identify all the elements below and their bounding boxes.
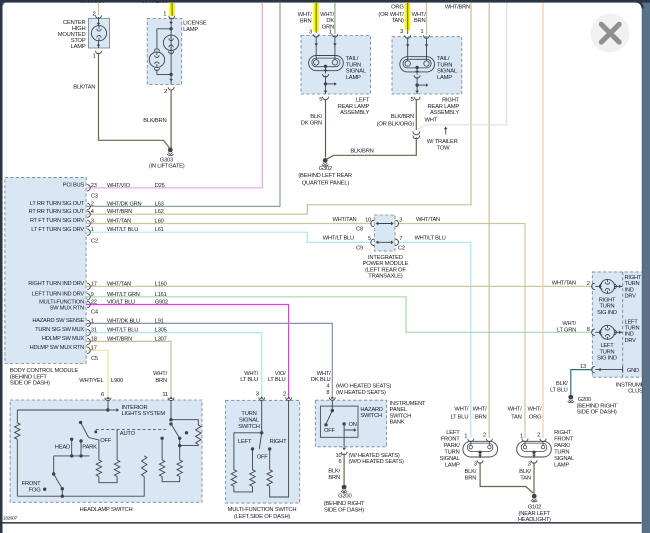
svg-text:BLK/BRN: BLK/BRN	[391, 114, 414, 120]
right front lamp common dot and pin 3	[532, 451, 535, 454]
svg-text:LT BLU: LT BLU	[450, 414, 468, 420]
svg-text:W/ TRAILER: W/ TRAILER	[427, 139, 458, 145]
svg-text:WHT/: WHT/	[562, 321, 576, 327]
MFS internal wires	[261, 400, 263, 433]
svg-text:(BEHIND RIGHT: (BEHIND RIGHT	[577, 403, 618, 409]
wire WHT/BRN to left front lamp pin 2	[488, 3, 490, 438]
svg-text:L61: L61	[155, 227, 164, 233]
wire BLK/BRN left front lamp to G102	[480, 462, 533, 493]
svg-text:ON: ON	[349, 422, 357, 428]
svg-text:1: 1	[91, 318, 94, 324]
svg-text:ASSEMBLY: ASSEMBLY	[340, 110, 369, 116]
wire WHT/DK GRN stub into left tail pin 1	[334, 3, 336, 34]
wire WHT/TAN from IPM pin 3 to right front lamp	[397, 224, 525, 439]
svg-text:WHT/VIO: WHT/VIO	[107, 183, 131, 189]
svg-text:(W/ HEATED SEATS): (W/ HEATED SEATS)	[349, 453, 400, 459]
bulb right turn signal indicator	[601, 279, 615, 293]
wire WHT/TAN stub into CHMSL	[98, 3, 100, 15]
svg-text:4: 4	[326, 384, 329, 390]
BCM pin 1 WHT/LT BLU L61	[87, 229, 90, 235]
center high mounted stop lamp exit wire	[98, 41, 100, 48]
wire BLK/TAN right front lamp to G102	[533, 462, 535, 493]
svg-text:L305: L305	[155, 328, 167, 334]
svg-text:RIGHT: RIGHT	[599, 297, 616, 303]
svg-text:HAZARD: HAZARD	[360, 407, 383, 413]
svg-text:L63: L63	[155, 201, 164, 207]
svg-text:POWER MODULE: POWER MODULE	[363, 261, 409, 267]
svg-text:(BEHIND LEFT: (BEHIND LEFT	[10, 374, 48, 380]
IPM internal row 2 arrow	[377, 241, 393, 243]
svg-text:(BEHIND LEFT REAR: (BEHIND LEFT REAR	[298, 173, 352, 179]
svg-text:SIGNAL: SIGNAL	[346, 69, 367, 75]
svg-text:TURN SIG SW MUX: TURN SIG SW MUX	[35, 327, 84, 333]
ground G302	[323, 158, 328, 163]
bulb license lamp right	[163, 35, 178, 50]
svg-text:WHT/: WHT/	[320, 12, 335, 18]
cluster gnd row	[595, 369, 623, 371]
wire WHT/VIO D25 pci bus	[86, 3, 262, 188]
left rear lamp assembly box	[301, 36, 371, 95]
svg-text:7: 7	[399, 236, 402, 242]
svg-text:REAR LAMP: REAR LAMP	[427, 104, 459, 110]
wire yellow highlight into right tail lamp pin 3	[405, 3, 411, 30]
svg-text:(W/O HEATED SEATS): (W/O HEATED SEATS)	[336, 384, 392, 390]
svg-text:LAMP: LAMP	[346, 75, 361, 81]
front fog switch	[53, 456, 55, 474]
svg-text:INSTRUMENT: INSTRUMENT	[390, 401, 426, 407]
svg-text:PARK/: PARK/	[444, 443, 460, 449]
svg-text:PCI BUS: PCI BUS	[63, 182, 85, 188]
svg-text:WHT/LT BLU: WHT/LT BLU	[107, 227, 138, 233]
svg-text:L161: L161	[155, 292, 167, 298]
resistor headlamp C	[142, 456, 147, 477]
svg-text:LT BLU: LT BLU	[550, 387, 568, 393]
resistor headlamp D	[177, 460, 182, 477]
svg-text:DK: DK	[326, 18, 334, 24]
svg-text:HDLMP SW MUX RTN: HDLMP SW MUX RTN	[30, 345, 85, 351]
resistor headlamp E	[159, 460, 164, 477]
svg-text:TURN: TURN	[625, 326, 640, 332]
svg-text:SIGNAL: SIGNAL	[440, 456, 461, 462]
ground G200 behind right side of dash (cluster)	[568, 395, 573, 400]
svg-text:AUTO: AUTO	[120, 431, 136, 437]
top right corner curve	[636, 1, 643, 8]
wire BLK/BRN right tail lower segment to G302	[327, 137, 417, 159]
svg-text:1: 1	[420, 29, 423, 35]
svg-text:WHT/TAN: WHT/TAN	[333, 217, 357, 223]
svg-text:2: 2	[483, 433, 486, 439]
svg-text:22: 22	[91, 300, 97, 306]
svg-text:IND: IND	[625, 287, 634, 293]
svg-text:LT BLU: LT BLU	[240, 377, 258, 383]
svg-text:WHT/TAN: WHT/TAN	[107, 219, 131, 225]
svg-text:FRONT: FRONT	[441, 437, 461, 443]
svg-text:TURN: TURN	[600, 304, 615, 310]
bottom rule line	[3, 522, 642, 524]
svg-text:TURN: TURN	[600, 349, 615, 355]
svg-text:11: 11	[162, 392, 168, 398]
BCM pin 18 WHT/BRN L307	[87, 338, 90, 344]
resistor MFS middle	[250, 470, 255, 487]
headlamp switch arm 2	[169, 422, 172, 425]
svg-text:C9: C9	[356, 245, 363, 251]
svg-text:WHT/LT GRN: WHT/LT GRN	[107, 292, 140, 298]
svg-text:C3: C3	[91, 193, 98, 199]
svg-text:TAN: TAN	[511, 414, 522, 420]
svg-text:C4: C4	[91, 309, 98, 315]
svg-text:(LEFT REAR OF: (LEFT REAR OF	[365, 267, 406, 273]
svg-text:RIGHT: RIGHT	[625, 275, 642, 281]
svg-text:WHT/: WHT/	[317, 371, 332, 377]
headlamp switch box	[10, 400, 202, 502]
wire WHT/DK GRN L63 lt rr turn sig out	[86, 3, 280, 206]
wire WHT/BRN L62 rt rr turn sig out	[86, 3, 471, 214]
svg-text:182607: 182607	[3, 516, 18, 521]
junction dot license top	[169, 27, 172, 30]
svg-text:WHT/TAN: WHT/TAN	[552, 281, 576, 287]
pin 5 left tail lamp	[324, 91, 328, 94]
IPM pin 5 C9	[371, 239, 374, 245]
in-line connector trailer tow	[413, 131, 420, 134]
svg-text:SIG IND: SIG IND	[597, 356, 617, 362]
svg-text:(BEHIND RIGHT: (BEHIND RIGHT	[324, 501, 365, 507]
ground G102	[532, 494, 537, 499]
trailer tow arrow	[445, 129, 447, 135]
right rear lamp assembly box	[392, 37, 462, 94]
svg-text:9: 9	[91, 292, 94, 298]
svg-text:OFF: OFF	[257, 454, 269, 460]
svg-text:10: 10	[336, 453, 342, 459]
svg-text:WHT/LT BLU: WHT/LT BLU	[323, 235, 354, 241]
svg-text:WHT/: WHT/	[153, 371, 168, 377]
svg-text:C2: C2	[91, 239, 98, 245]
svg-text:SWITCH: SWITCH	[238, 424, 260, 430]
svg-text:8: 8	[326, 390, 329, 396]
svg-text:PARK/: PARK/	[554, 443, 570, 449]
left edge of dialog	[0, 0, 3, 533]
svg-text:SIGNAL: SIGNAL	[554, 456, 575, 462]
IPM pin 10 C8	[371, 220, 374, 226]
svg-text:DK BLU: DK BLU	[311, 377, 331, 383]
BCM pin 17 WHT/TAN L160	[87, 283, 90, 289]
svg-text:DK GRN: DK GRN	[301, 120, 322, 126]
ground G303	[168, 148, 173, 153]
center high mounted stop lamp box	[89, 18, 110, 48]
resistor MFS left	[231, 470, 236, 487]
wire WHT/DK BLU L91 hazard sw sense	[86, 323, 332, 396]
svg-text:TURN: TURN	[554, 450, 569, 456]
svg-text:WHT/DK BLU: WHT/DK BLU	[107, 318, 140, 324]
svg-text:(NEAR LEFT: (NEAR LEFT	[518, 511, 550, 517]
svg-text:L160: L160	[155, 281, 167, 287]
svg-text:SIGNAL: SIGNAL	[437, 69, 458, 75]
wire WHT/BRN L307 hdlmp sw mux	[86, 341, 171, 397]
svg-text:SWITCH: SWITCH	[390, 413, 412, 419]
svg-text:1: 1	[163, 11, 166, 17]
wire WHT trailer tow	[416, 3, 506, 130]
svg-text:G902: G902	[155, 300, 168, 306]
svg-text:VIO/LT BLU: VIO/LT BLU	[107, 300, 135, 306]
svg-text:TURN: TURN	[444, 450, 459, 456]
svg-text:2: 2	[537, 433, 540, 439]
left tail bulb common dot	[324, 65, 327, 68]
svg-text:FRONT: FRONT	[22, 481, 42, 487]
right tail junction with branch arrow	[416, 77, 418, 94]
instrument cluster internal divider	[622, 272, 624, 377]
svg-text:RIGHT: RIGHT	[442, 98, 460, 104]
svg-text:SIDE OF DASH): SIDE OF DASH)	[10, 381, 50, 387]
svg-text:VIO/: VIO/	[275, 371, 286, 377]
svg-text:LICENSE: LICENSE	[183, 20, 207, 26]
svg-text:TRANSAXLE): TRANSAXLE)	[368, 274, 402, 280]
multi-function switch box	[226, 400, 300, 503]
svg-text:D25: D25	[155, 183, 165, 189]
svg-text:(OR WHT/: (OR WHT/	[378, 12, 404, 18]
BCM pin 2 WHT/DK GRN L63	[87, 203, 90, 209]
svg-text:WHT/LT BLU: WHT/LT BLU	[107, 328, 138, 334]
svg-text:GND: GND	[627, 368, 639, 374]
svg-text:QUARTER PANEL): QUARTER PANEL)	[302, 180, 350, 186]
wire WHT/BRN stub into right tail pin 1	[426, 3, 428, 35]
svg-text:INTERIOR: INTERIOR	[122, 405, 148, 411]
MFS resistor bottoms	[234, 486, 253, 492]
svg-text:WHT/TAN: WHT/TAN	[416, 217, 440, 223]
wire WHT/LT BLU L61 lt ft turn sig drv to IPM	[86, 232, 372, 242]
svg-text:BLK/BRN: BLK/BRN	[350, 149, 373, 155]
svg-text:LEFT TURN IND DRV: LEFT TURN IND DRV	[32, 291, 85, 297]
svg-text:OFF: OFF	[324, 428, 335, 434]
svg-text:HEAD: HEAD	[55, 445, 70, 451]
headlamp auto contact dot	[185, 431, 188, 434]
svg-text:L91: L91	[155, 318, 164, 324]
IPM pin 7 C2	[395, 239, 398, 245]
svg-text:C5: C5	[91, 356, 98, 362]
svg-text:PARK: PARK	[82, 445, 97, 451]
left tail dual filament bulb	[309, 56, 344, 71]
svg-text:C8: C8	[356, 227, 363, 233]
svg-text:G102: G102	[528, 504, 541, 510]
svg-text:MULTI-FUNCTION SWITCH: MULTI-FUNCTION SWITCH	[228, 507, 297, 513]
svg-text:10: 10	[365, 217, 371, 223]
svg-text:LIGHTS SYSTEM: LIGHTS SYSTEM	[122, 411, 166, 417]
svg-text:BRN: BRN	[414, 18, 426, 24]
wire WHT/YEL L900 hdlmp sw mux rtn	[86, 350, 108, 397]
svg-text:FRONT: FRONT	[554, 437, 574, 443]
wire WHT/TAN L160 right turn ind drv	[86, 285, 592, 287]
svg-text:LT RR TURN SIG OUT: LT RR TURN SIG OUT	[30, 201, 85, 207]
svg-text:2: 2	[164, 89, 167, 95]
resistor headlamp B	[114, 460, 119, 477]
svg-text:TAIL/: TAIL/	[346, 56, 359, 62]
svg-text:LEFT: LEFT	[238, 439, 252, 445]
headlamp bottom wire	[17, 477, 144, 497]
cluster left turn sig ind row	[595, 331, 600, 333]
svg-text:L900: L900	[111, 378, 123, 384]
svg-text:L62: L62	[155, 209, 164, 215]
svg-text:BLK/TAN: BLK/TAN	[73, 85, 95, 91]
wire yellow highlight into left tail lamp pin 3	[313, 3, 319, 32]
left front lamp common dot and pin 3	[478, 451, 481, 454]
svg-text:RIGHT: RIGHT	[554, 430, 572, 436]
svg-text:(OR BLK/ORG): (OR BLK/ORG)	[377, 121, 415, 127]
HEAD contact	[70, 438, 73, 441]
svg-text:BLK/: BLK/	[310, 114, 322, 120]
bulb center high mounted stop lamp	[91, 26, 106, 41]
svg-text:WHT/YEL: WHT/YEL	[79, 378, 104, 384]
resistor MFS right	[267, 470, 272, 487]
license lamp internal wires	[170, 18, 172, 85]
svg-text:WHT/: WHT/	[244, 371, 259, 377]
junction dot license bottom	[169, 73, 172, 76]
svg-text:TURN: TURN	[241, 411, 256, 417]
svg-text:SW MUX RTN: SW MUX RTN	[50, 306, 84, 312]
svg-text:2: 2	[283, 391, 286, 397]
svg-text:LT FT TURN SIG DRV: LT FT TURN SIG DRV	[31, 227, 84, 233]
svg-text:LEFT: LEFT	[356, 98, 370, 104]
integrated power module box	[374, 215, 395, 251]
svg-text:LT GRN: LT GRN	[557, 328, 576, 334]
svg-text:FOG: FOG	[29, 488, 42, 494]
svg-text:DRV: DRV	[625, 338, 637, 344]
svg-text:LAMP: LAMP	[71, 44, 86, 50]
svg-text:WHT: WHT	[425, 118, 438, 124]
resistor headlamp A	[96, 460, 101, 477]
hazard exit arc	[342, 448, 346, 451]
cluster pin 8	[592, 329, 595, 335]
svg-text:TAN: TAN	[520, 475, 531, 481]
svg-text:MULTI-FUNCTION: MULTI-FUNCTION	[39, 299, 84, 305]
svg-text:TOW: TOW	[437, 145, 451, 151]
svg-text:LEFT: LEFT	[446, 430, 460, 436]
wire BLK/LT BLU cluster pin13 to G200	[571, 370, 592, 395]
svg-text:SIDE OF DASH): SIDE OF DASH)	[577, 410, 617, 416]
svg-text:RT FT TURN SIG DRV: RT FT TURN SIG DRV	[30, 218, 84, 224]
svg-text:BRN: BRN	[155, 378, 167, 384]
left front park/turn signal lamp body	[463, 441, 498, 457]
headlamp pin 11 junction	[170, 400, 172, 420]
svg-text:3: 3	[91, 219, 94, 225]
license lamp box	[147, 19, 182, 85]
wire BLK/BRN right tail upper segment	[415, 99, 417, 130]
svg-text:LAMP: LAMP	[554, 463, 569, 469]
svg-text:WHT/: WHT/	[298, 12, 313, 18]
svg-text:SWITCH: SWITCH	[360, 413, 382, 419]
close button	[591, 14, 630, 53]
svg-text:BRN: BRN	[465, 475, 477, 481]
svg-text:5: 5	[368, 236, 371, 242]
svg-text:IND: IND	[625, 332, 634, 338]
svg-text:1: 1	[464, 434, 467, 440]
BCM pin 31 WHT/LT BLU L305	[87, 329, 90, 335]
svg-text:TAIL/: TAIL/	[437, 56, 450, 62]
svg-text:TURN: TURN	[437, 62, 452, 68]
svg-text:TURN: TURN	[625, 281, 640, 287]
svg-text:G200: G200	[578, 397, 591, 403]
bulb license lamp left	[149, 52, 164, 67]
headlamp interior lights feed	[107, 400, 109, 410]
IPM internal row 1 arrow	[377, 223, 393, 225]
svg-text:RIGHT: RIGHT	[270, 439, 288, 445]
cluster right turn sig ind row	[595, 285, 600, 287]
svg-text:WHT/BRN: WHT/BRN	[445, 4, 470, 10]
right tail dual filament bulb	[400, 57, 435, 72]
hazard switch inner box	[320, 406, 358, 437]
front fog alternate contact dot	[43, 488, 46, 491]
svg-text:17: 17	[91, 281, 97, 287]
pin 5 right tail lamp	[415, 91, 419, 94]
wire WHT/LT BLU L305 turn sig sw mux	[86, 333, 262, 397]
bulb left turn signal indicator	[601, 325, 615, 339]
svg-text:BRN: BRN	[300, 19, 312, 25]
wire BLK/BRN license to G303	[170, 90, 172, 149]
svg-text:1: 1	[92, 54, 95, 60]
svg-text:G200: G200	[338, 494, 351, 500]
svg-text:ASSEMBLY: ASSEMBLY	[430, 110, 459, 116]
svg-text:WHT/DK GRN: WHT/DK GRN	[107, 201, 142, 207]
svg-text:WHT/BRN: WHT/BRN	[107, 336, 132, 342]
svg-text:(W HEATED SEATS): (W HEATED SEATS)	[336, 390, 386, 396]
svg-text:4: 4	[91, 209, 94, 215]
right tail lamp internal wires	[407, 37, 409, 61]
wire BLK/DK GRN to G302	[325, 99, 327, 158]
svg-text:WHT/: WHT/	[412, 12, 427, 18]
svg-text:DRV: DRV	[625, 294, 637, 300]
left tail junction with branch arrow	[325, 76, 327, 95]
svg-text:LAMP: LAMP	[445, 463, 460, 469]
svg-text:REAR LAMP: REAR LAMP	[338, 104, 370, 110]
svg-text:18: 18	[91, 336, 97, 342]
svg-text:2: 2	[92, 11, 95, 17]
svg-text:2: 2	[587, 281, 590, 287]
svg-text:(W/O HEATED SEATS): (W/O HEATED SEATS)	[349, 459, 405, 465]
svg-text:2: 2	[91, 201, 94, 207]
svg-text:31: 31	[91, 328, 97, 334]
svg-text:SIG IND: SIG IND	[597, 310, 617, 316]
svg-text:LT BLU: LT BLU	[268, 377, 286, 383]
svg-text:LEFT: LEFT	[600, 343, 614, 349]
svg-text:ORG: ORG	[529, 414, 542, 420]
headlamp left branch with resistor	[16, 410, 18, 423]
svg-text:6: 6	[339, 459, 342, 465]
headlamp right branch resistor	[171, 420, 198, 425]
svg-text:WHT/: WHT/	[508, 407, 523, 413]
headlamp mid horizontal	[54, 455, 90, 457]
svg-text:WHT/: WHT/	[527, 407, 542, 413]
center high mounted stop lamp internal wire	[98, 17, 100, 26]
wire WHT/LT GRN L161 left turn ind drv	[86, 297, 592, 333]
svg-text:BLK/: BLK/	[519, 469, 531, 475]
svg-text:BLK/BRN: BLK/BRN	[143, 118, 166, 124]
instrument panel switch bank box	[315, 400, 386, 447]
right front park/turn signal lamp body	[517, 441, 552, 457]
ground G200 behind right side of dash (hazard)	[342, 485, 347, 490]
wire BLK/BRN hazard to G200	[343, 454, 345, 485]
cluster pin 13	[592, 366, 595, 372]
svg-text:3: 3	[399, 217, 402, 223]
svg-text:8: 8	[587, 327, 590, 333]
hazard switch internals	[331, 400, 333, 410]
right tail bulb common dot	[415, 66, 418, 69]
svg-text:WHT/: WHT/	[473, 407, 488, 413]
svg-text:L60: L60	[155, 219, 164, 225]
right edge of dialog	[643, 0, 650, 533]
license lamp exit	[169, 79, 173, 82]
hazard pin entry arc	[329, 397, 335, 400]
svg-text:HDLMP SW MUX: HDLMP SW MUX	[42, 336, 85, 342]
svg-text:1: 1	[91, 227, 94, 233]
MFS RIGHT contact	[268, 447, 271, 450]
svg-text:WHT/: WHT/	[454, 407, 469, 413]
